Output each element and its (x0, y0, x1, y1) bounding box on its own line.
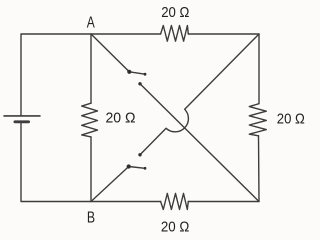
svg-text:20 Ω: 20 Ω (161, 4, 189, 21)
svg-text:B: B (87, 209, 95, 226)
svg-text:A: A (87, 14, 96, 31)
svg-text:20 Ω: 20 Ω (277, 110, 305, 127)
svg-text:20 Ω: 20 Ω (106, 110, 136, 127)
svg-text:20 Ω: 20 Ω (161, 219, 190, 235)
